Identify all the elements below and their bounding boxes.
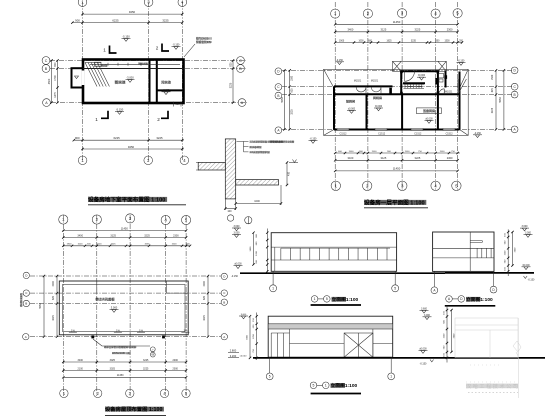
elevation A-D axis drop line A — [433, 271, 435, 286]
svg-text:5: 5 — [269, 375, 271, 379]
floor plan door label M1021 second — [371, 79, 379, 82]
elevation 1-5 title — [311, 296, 361, 305]
svg-text:-3.000: -3.000 — [126, 76, 134, 80]
elevation 1-5 axis drop line 1 — [272, 271, 274, 285]
floor plan bottom dimension 11450 — [334, 167, 459, 172]
basement plan room label reservoir — [115, 80, 126, 85]
roof plan grid row B line — [30, 303, 221, 305]
basement plan bottom dimension 9450 — [81, 145, 183, 150]
basement plan grid bubble A right — [238, 99, 246, 107]
elevation D-A level 3.000 — [423, 314, 432, 320]
svg-text:1: 1 — [95, 117, 98, 122]
floor plan black column blocks — [389, 70, 447, 94]
roof plan grid axis 5 — [185, 215, 187, 396]
roof plan bottom dimension row fine — [62, 359, 187, 363]
svg-text:3225: 3225 — [203, 315, 206, 321]
elevation A-D window mullions — [477, 248, 491, 258]
basement plan grid bubble 1 top — [78, 0, 87, 7]
wall detail bottom dimension 1000 — [235, 200, 283, 205]
floor plan interior wall x=366 — [366, 94, 368, 129]
svg-text:1900: 1900 — [67, 244, 73, 246]
svg-text:1500: 1500 — [372, 151, 378, 153]
elevation A-D building outline — [433, 232, 494, 271]
elevation A-D grid bubble D — [490, 286, 497, 293]
basement plan grid bubble 1 bottom — [78, 156, 87, 165]
elevation 5-1 right panel lines — [373, 329, 393, 357]
elevation 1-5 building outline — [271, 233, 396, 272]
wall detail vertical wall hatched — [225, 139, 235, 199]
svg-text:3400: 3400 — [77, 234, 83, 237]
elevation D-A total height dim — [450, 309, 455, 353]
svg-text:11450: 11450 — [393, 167, 401, 171]
floor plan grid bubble 3 top — [398, 9, 407, 18]
roof plan grid axis 2 — [96, 215, 98, 396]
floor plan grid bubble 2 top — [363, 9, 372, 18]
roof plan right side level note lower — [228, 354, 239, 358]
roof plan grid bubble 1 top — [59, 215, 68, 224]
elevation 5-1 left dim stack — [253, 313, 258, 361]
svg-text:±0.000: ±0.000 — [522, 264, 530, 267]
svg-text:WD50/400B（雨）: WD50/400B（雨） — [112, 351, 132, 355]
svg-text:1500: 1500 — [203, 281, 206, 287]
svg-text:-0.150: -0.150 — [310, 138, 317, 141]
basement plan grid bubble 4 bottom — [180, 156, 189, 165]
floor plan left dimension column — [289, 69, 294, 130]
floor plan grid row C line — [282, 86, 512, 88]
basement plan vent note DN25 — [184, 37, 212, 58]
floor plan grid bubble 4 bottom — [431, 181, 440, 190]
svg-text:1475: 1475 — [54, 92, 57, 98]
svg-text:±0.000: ±0.000 — [234, 263, 242, 266]
svg-text:6225: 6225 — [113, 136, 120, 140]
floor plan right total dimension — [499, 69, 505, 130]
svg-text:±0.000: ±0.000 — [425, 118, 433, 121]
elevation D-A level 0.000 — [419, 348, 428, 354]
svg-text:2: 2 — [156, 46, 159, 51]
svg-text:排气DN25↑: 排气DN25↑ — [196, 37, 210, 41]
elevation 5-1 top band shaded — [268, 324, 393, 329]
floor plan corridor wall row B — [334, 93, 460, 95]
roof plan grid bubble 4 top — [161, 215, 170, 224]
svg-text:带上人孔盖板: 带上人孔盖板 — [95, 296, 115, 301]
svg-text:3.000: 3.000 — [111, 306, 118, 310]
floor plan bottom fine dimension row — [334, 151, 460, 154]
basement plan section mark 2 top — [156, 44, 169, 52]
svg-text:3400: 3400 — [78, 359, 84, 362]
svg-text:C1512: C1512 — [414, 133, 422, 136]
wall detail leader bracket to notes — [237, 141, 249, 152]
basement plan grid bubble 3 bottom — [144, 156, 153, 165]
roof plan grid bubble D right — [221, 273, 227, 279]
roof plan rain drain square 1 — [91, 336, 94, 339]
svg-text:1000: 1000 — [358, 40, 364, 42]
basement plan top dimension row 900/6225/3225 — [71, 18, 183, 23]
svg-text:-0.150: -0.150 — [458, 60, 465, 63]
svg-text:3.000: 3.000 — [234, 232, 241, 235]
svg-text:-5.150: -5.150 — [173, 44, 180, 47]
svg-text:5550: 5550 — [39, 303, 42, 309]
svg-text:3.000: 3.000 — [525, 232, 532, 235]
floor plan eave outline — [324, 69, 469, 135]
basement plan section mark 2 bottom — [157, 111, 168, 122]
svg-text:2M1021: 2M1021 — [444, 90, 453, 93]
basement plan equipment label smudge — [101, 64, 109, 68]
floor plan grid bubble D left — [275, 68, 282, 75]
svg-text:4500: 4500 — [48, 78, 51, 84]
floor plan grid bubble 4 top — [431, 9, 440, 18]
watermark faint dotted rule — [468, 392, 518, 394]
floor plan grid bubble 5 bottom — [452, 181, 461, 190]
basement plan interior corridor line row B — [83, 68, 184, 70]
roof plan grid bubble 3 bottom — [126, 389, 134, 397]
floor plan outer wall right side — [459, 72, 461, 130]
svg-text:11450: 11450 — [393, 20, 401, 24]
roof plan rain drain square 2 — [162, 336, 165, 339]
elevation 1-5 axis drop line 5 — [394, 271, 396, 285]
roof plan bottom dimension 11450 — [62, 374, 187, 378]
floor plan room label dosing room — [346, 98, 355, 103]
basement plan: grid line axis 4 — [181, 2, 183, 160]
svg-text:3225: 3225 — [144, 234, 150, 237]
roof plan right dimension column — [203, 275, 209, 338]
elevation 1-5 level 3.600 — [232, 225, 241, 231]
floor plan canopy outline over entry room — [393, 61, 447, 71]
elevation 1-5 ground line — [240, 272, 445, 274]
elevation A-D corner line — [469, 232, 471, 271]
elevation A-D grid bubble A — [431, 287, 438, 294]
floor plan grid bubble 3 bottom — [398, 181, 407, 190]
wall detail level mark right — [289, 160, 298, 163]
roof plan grid row C line — [30, 292, 221, 294]
svg-text:3.600: 3.600 — [234, 225, 241, 228]
svg-text:3125: 3125 — [381, 28, 387, 32]
floor plan grid row A line — [282, 128, 512, 130]
svg-text:9450: 9450 — [128, 145, 135, 149]
svg-text:B: B — [514, 93, 516, 97]
elevation 1-5 grid bubble 5 — [392, 285, 399, 292]
roof plan title — [105, 405, 166, 416]
roof plan grid row A line — [30, 336, 221, 338]
basement plan right dimension column — [230, 59, 235, 104]
basement plan section mark 1 top — [103, 46, 116, 54]
svg-text:污水池: 污水池 — [161, 80, 171, 85]
svg-text:1: 1 — [325, 384, 327, 388]
basement plan interior wall vertical 2 (shaft) — [156, 60, 158, 104]
svg-text:3225: 3225 — [415, 156, 421, 160]
svg-text:3225: 3225 — [415, 28, 421, 32]
svg-text:3225: 3225 — [52, 315, 55, 321]
floor plan outer wall left wing top — [334, 85, 393, 87]
roof plan grid bubble 2 bottom — [94, 389, 102, 397]
basement plan outer wall — [83, 60, 184, 104]
svg-text:±0.000: ±0.000 — [419, 348, 427, 351]
svg-text:-5.150: -5.150 — [122, 35, 130, 39]
elevation 1-5 left pilaster — [274, 247, 276, 271]
floor plan grid axis 5 — [457, 2, 459, 190]
svg-text:3400: 3400 — [348, 28, 354, 32]
svg-text:汉哈工程技术公司: 汉哈工程技术公司 — [466, 382, 520, 390]
elevation A-D level -0.150 — [528, 279, 535, 282]
svg-text:M1021: M1021 — [354, 79, 362, 82]
floor plan door label M1021 first — [354, 79, 362, 82]
floor plan grid bubble 2 bottom — [363, 181, 372, 190]
wall detail right horizontal wall hatched — [236, 180, 279, 185]
basement plan section mark 1 bottom — [95, 111, 108, 122]
svg-text:A: A — [25, 335, 27, 339]
svg-text:5: 5 — [326, 297, 328, 301]
svg-text:C1512: C1512 — [446, 133, 454, 136]
svg-text:11450: 11450 — [121, 226, 129, 230]
svg-text:3125: 3125 — [381, 156, 387, 160]
svg-text:1: 1 — [272, 287, 274, 291]
svg-text:立面图1:100: 立面图1:100 — [466, 296, 493, 303]
roof plan top dimension 11450 — [62, 226, 187, 231]
floor plan right dimension column — [491, 69, 497, 130]
basement plan grid bubble 4 top — [178, 0, 187, 7]
svg-text:3235: 3235 — [411, 40, 417, 42]
floor plan door label 2M1021 — [444, 90, 453, 93]
svg-text:3.600: 3.600 — [421, 307, 428, 310]
floor plan level -0.150 bottom right — [473, 132, 482, 138]
roof plan bottom dimension row 2 — [62, 367, 187, 371]
basement plan grid line row A — [51, 102, 247, 104]
basement plan level -5.150 bottom — [115, 108, 124, 115]
svg-text:3.000: 3.000 — [424, 314, 431, 317]
roof plan grid axis 1 — [62, 215, 64, 396]
floor plan level -0.150 top right — [457, 60, 466, 66]
basement plan level -3.000 with symbol — [126, 76, 135, 83]
svg-text:-0.150: -0.150 — [474, 132, 481, 135]
floor plan entry room right wall upper — [437, 71, 439, 94]
svg-text:B: B — [223, 300, 225, 304]
svg-text:100: 100 — [227, 210, 232, 213]
svg-text:1500: 1500 — [440, 151, 446, 153]
svg-text:C1512: C1512 — [378, 133, 386, 136]
svg-text:1500: 1500 — [172, 244, 178, 246]
elevation D-A level -0.150 — [420, 363, 427, 366]
roof plan step line right — [167, 281, 189, 293]
roof plan outer outline — [59, 281, 188, 335]
svg-text:±0.000: ±0.000 — [348, 108, 356, 111]
svg-text:B: B — [25, 302, 27, 306]
floor plan entry room stair treads — [404, 84, 425, 88]
elevation 5-1 left total dim — [246, 315, 251, 359]
svg-text:900: 900 — [75, 136, 80, 140]
svg-text:A: A — [223, 335, 225, 339]
svg-text:1900: 1900 — [339, 40, 345, 42]
elevation A-D band line upper — [433, 247, 494, 249]
svg-text:C: C — [239, 59, 242, 63]
roof plan grid bubble A right — [221, 334, 227, 340]
svg-text:-0.150: -0.150 — [231, 275, 238, 278]
floor plan room label fan room — [373, 95, 382, 100]
watermark faint small marks upper — [466, 365, 518, 382]
floor plan grid row B line — [282, 94, 512, 96]
svg-text:1625: 1625 — [386, 40, 392, 42]
elevation 1-5 total height dim — [250, 232, 255, 266]
basement plan wall opening at protrusion — [82, 71, 85, 86]
roof plan drain leader line — [93, 339, 150, 346]
floor plan grid bubble 1 top — [331, 9, 340, 18]
basement plan protrusion level symbol — [75, 76, 79, 79]
basement plan equipment box near entry — [95, 62, 102, 66]
floor plan door arc entry room — [405, 71, 415, 81]
svg-text:加药间: 加药间 — [346, 98, 355, 103]
floor plan grid bubble C right — [511, 83, 518, 90]
floor plan interior wall x=402 — [401, 94, 403, 129]
floor plan level -0.150 top left — [335, 59, 344, 65]
svg-text:3100: 3100 — [348, 156, 354, 160]
roof plan right side level note upper — [228, 349, 239, 353]
svg-text:1500: 1500 — [52, 281, 55, 287]
svg-text:±0.000: ±0.000 — [418, 74, 426, 77]
elevation 5-1 axis drop line 5 — [269, 357, 271, 373]
basement plan interior wall vertical 1 — [149, 60, 151, 104]
svg-text:±0.000: ±0.000 — [240, 356, 247, 358]
svg-text:3025: 3025 — [110, 367, 116, 370]
elevation 5-1 ground line — [253, 357, 545, 359]
svg-text:2000: 2000 — [173, 359, 179, 362]
watermark faint title row — [466, 382, 520, 390]
floor plan entry room left wall — [400, 71, 402, 94]
roof plan grid bubble 2 top — [92, 215, 101, 224]
roof plan drain symbol circle 1 — [150, 347, 155, 352]
elevation 5-1 title — [310, 382, 361, 394]
floor plan door arc left room 2 — [371, 86, 381, 94]
floor plan title — [364, 199, 428, 208]
floor plan grid bubble C left — [275, 84, 282, 91]
svg-text:825: 825 — [52, 295, 55, 300]
basement plan grid bubble B left — [42, 65, 50, 73]
svg-text:3225: 3225 — [291, 109, 294, 115]
svg-text:3.600: 3.600 — [522, 225, 529, 228]
svg-text:蓄水池: 蓄水池 — [115, 80, 126, 85]
elevation 1-5 level 3.000 — [232, 232, 241, 238]
roof plan step line left — [96, 281, 98, 293]
roof plan left dimension column — [52, 275, 58, 338]
svg-text:2100: 2100 — [78, 367, 84, 370]
svg-text:2000: 2000 — [173, 367, 179, 370]
basement plan grid bubble C left — [42, 57, 50, 65]
roof plan grid bubble B left — [23, 300, 29, 306]
floor plan left outside note — [270, 140, 294, 144]
svg-text:600: 600 — [54, 62, 57, 67]
floor plan wc fixtures — [439, 74, 444, 83]
svg-text:6225: 6225 — [112, 18, 119, 22]
wall detail left horizontal wall hatched — [198, 163, 225, 171]
roof plan grid bubble 5 top — [182, 215, 191, 224]
svg-text:825: 825 — [291, 88, 294, 93]
svg-text:1625: 1625 — [111, 244, 117, 246]
elevation 5-1 X-brace double door — [344, 333, 373, 357]
floor plan window label C1512 1 — [339, 133, 347, 136]
svg-text:1700: 1700 — [54, 75, 57, 81]
roof plan grid bubble A left — [23, 334, 29, 340]
elevation D-A faint inner lines — [455, 325, 518, 358]
svg-text:3225: 3225 — [156, 136, 163, 140]
roof plan slope 1% marks — [69, 328, 77, 332]
floor plan outer wall left side — [333, 86, 335, 129]
svg-text:2250: 2250 — [253, 333, 255, 338]
svg-text:2300: 2300 — [447, 156, 453, 160]
roof plan left total dimension — [39, 275, 45, 338]
floor plan grid bubble A left — [275, 127, 282, 134]
elevation A-D ground line — [445, 272, 534, 274]
svg-text:2: 2 — [157, 117, 160, 122]
svg-text:825: 825 — [203, 295, 206, 300]
roof plan drain note text — [104, 345, 136, 349]
roof plan grid bubble D left — [23, 272, 29, 278]
roof plan grid row D line — [30, 275, 221, 277]
roof plan grid axis 3 — [129, 215, 131, 396]
svg-text:1500: 1500 — [349, 151, 355, 153]
floor plan entry room level — [417, 74, 426, 80]
roof plan grid bubble C left — [23, 290, 29, 296]
svg-text:3025: 3025 — [110, 359, 116, 362]
svg-text:900: 900 — [75, 18, 80, 22]
svg-text:2.800: 2.800 — [230, 349, 237, 353]
roof plan top dimension row fine — [62, 244, 191, 247]
svg-text:1: 1 — [103, 48, 106, 53]
basement plan grid bubble B right — [237, 65, 245, 73]
floor plan grid axis 3 — [401, 2, 403, 190]
floor plan bottom dimension row 3100/3125/3225/2300 — [334, 156, 459, 161]
elevation 5-1 left louver panel — [271, 329, 289, 357]
elevation 1-5 level -0.150 — [231, 275, 238, 278]
roof plan drain note code — [112, 351, 132, 355]
roof plan top dimension row 3400/3125/3225/2300 — [62, 234, 187, 238]
floor plan outer wall bottom with windows — [334, 129, 460, 131]
svg-text:1500: 1500 — [444, 40, 450, 42]
roof plan grid bubble 4 bottom — [160, 389, 168, 397]
elevation 5-1 grid bubble 1 — [388, 373, 395, 380]
elevation 5-1 left level 3.600 — [239, 314, 248, 319]
roof plan access hatch label — [95, 296, 115, 301]
basement plan top dimension 9450 — [81, 10, 183, 15]
svg-text:1200: 1200 — [97, 244, 103, 246]
basement plan title — [88, 196, 186, 205]
elevation A-D title — [445, 296, 496, 306]
svg-text:1: 1 — [314, 297, 316, 301]
elevation 5-1 axis drop line 1 — [390, 357, 392, 373]
roof plan grid bubble 1 bottom — [60, 389, 68, 397]
svg-text:1500: 1500 — [491, 74, 494, 80]
roof plan drain symbol circle 2 — [150, 352, 155, 357]
floor plan door arc left room 1 — [356, 86, 366, 94]
svg-text:5550: 5550 — [281, 97, 284, 103]
svg-text:设备房屋顶布置图 1:100: 设备房屋顶布置图 1:100 — [105, 405, 162, 413]
basement plan grid line row C — [50, 60, 246, 62]
basement plan grid bubble C right — [237, 57, 245, 65]
floor plan window label C1512 4 — [446, 133, 454, 136]
elevation 5-1 mid horizontal line — [290, 343, 345, 345]
svg-text:雨水口穿女儿墙预留洞 详水施: 雨水口穿女儿墙预留洞 详水施 — [104, 345, 136, 349]
floor plan entry room top wall — [401, 70, 438, 72]
svg-text:消防水箱: 消防水箱 — [138, 62, 148, 66]
floor plan entry room inner wall — [403, 82, 425, 84]
basement plan small 900 dimension bottom right — [174, 102, 182, 107]
svg-text:11450: 11450 — [117, 374, 124, 377]
roof plan grid bubble C right — [221, 290, 227, 296]
basement plan grid bubble A left — [43, 99, 51, 107]
elevation D-A level 3.600 — [420, 307, 429, 313]
svg-text:五金风房: 五金风房 — [423, 108, 435, 113]
svg-text:B: B — [277, 94, 279, 98]
roof plan left vertical note — [19, 292, 23, 306]
floor plan grid axis 1 — [334, 2, 336, 190]
basement plan: grid line axis 1 — [82, 2, 84, 160]
elevation 1-5 level 0.000 — [234, 263, 243, 269]
